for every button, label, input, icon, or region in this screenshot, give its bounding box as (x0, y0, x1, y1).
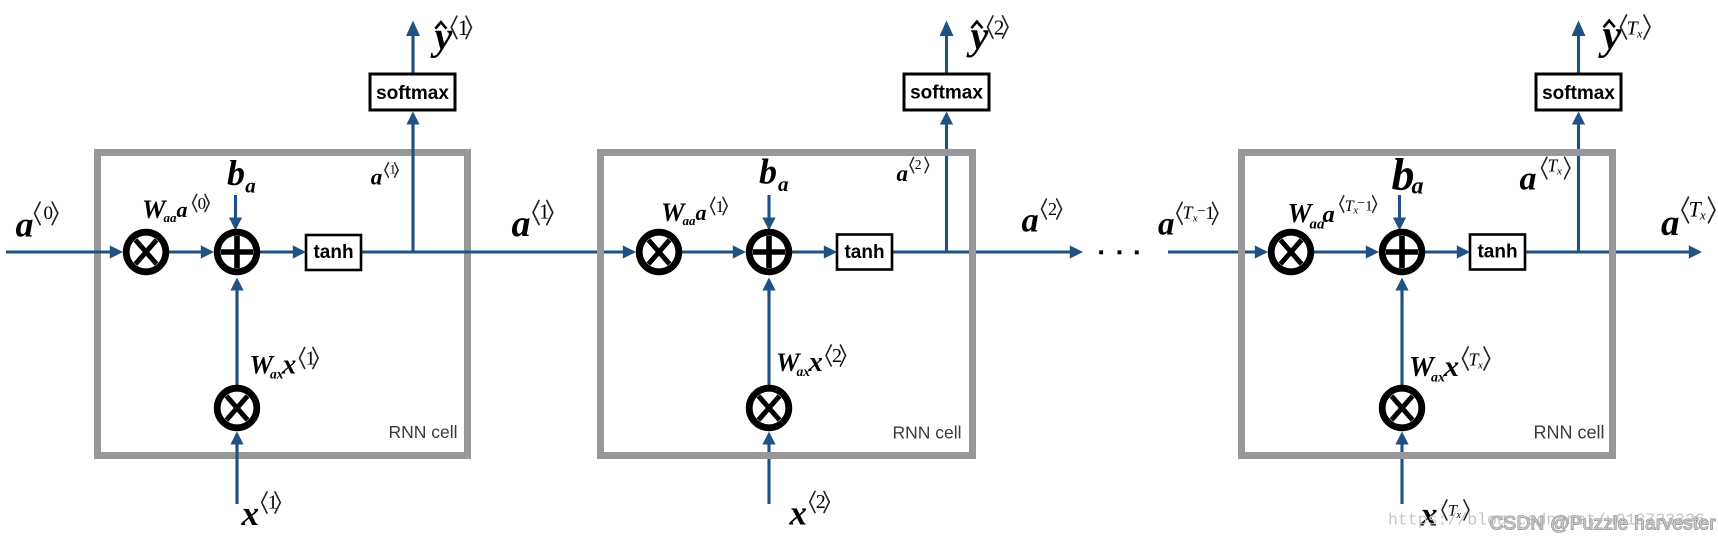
svg-text:1: 1 (716, 197, 725, 216)
svg-text:2: 2 (816, 491, 826, 513)
svg-text:y: y (431, 14, 453, 59)
svg-text:a: a (1158, 207, 1175, 243)
svg-text:RNN cell: RNN cell (893, 423, 962, 443)
svg-text:a: a (1022, 202, 1039, 240)
svg-text:aa: aa (164, 210, 178, 225)
svg-text:a: a (1323, 201, 1335, 228)
svg-text:0: 0 (198, 194, 207, 213)
svg-text:softmax: softmax (910, 83, 983, 104)
svg-text:x: x (1477, 360, 1483, 372)
svg-text:x: x (1443, 350, 1459, 383)
svg-text:1: 1 (1365, 199, 1372, 215)
svg-text:a: a (512, 203, 531, 245)
svg-text:x: x (241, 494, 260, 533)
svg-text:b: b (759, 152, 777, 192)
svg-text:x: x (1556, 165, 1562, 177)
svg-text:x: x (1636, 27, 1643, 41)
svg-text:ax: ax (1431, 371, 1445, 386)
svg-text:CSDN @Puzzle harvester: CSDN @Puzzle harvester (1490, 514, 1717, 535)
svg-text:a: a (1412, 174, 1424, 200)
svg-text:2: 2 (832, 345, 842, 367)
svg-text:a: a (1520, 161, 1537, 198)
svg-text:x: x (789, 494, 808, 533)
svg-text:−: − (1357, 196, 1365, 211)
svg-text:x: x (808, 347, 823, 378)
svg-text:2: 2 (1048, 199, 1057, 219)
svg-text:a: a (245, 173, 256, 197)
svg-text:a: a (16, 205, 34, 245)
svg-text:tanh: tanh (313, 242, 353, 263)
svg-text:a: a (1661, 203, 1680, 244)
svg-text:a: a (177, 197, 188, 222)
svg-text:softmax: softmax (376, 83, 449, 104)
svg-text:x: x (1699, 208, 1706, 223)
svg-text:a: a (696, 200, 707, 225)
svg-text:a: a (897, 161, 909, 186)
svg-text:0: 0 (44, 203, 54, 224)
svg-text:RNN cell: RNN cell (1534, 423, 1605, 443)
svg-text:b: b (227, 153, 245, 193)
svg-text:a: a (371, 165, 383, 190)
svg-text:tanh: tanh (844, 242, 884, 263)
svg-text:RNN cell: RNN cell (389, 422, 458, 442)
svg-text:2: 2 (915, 157, 922, 172)
svg-text:softmax: softmax (1542, 83, 1615, 104)
svg-text:tanh: tanh (1477, 242, 1517, 263)
svg-text:aa: aa (683, 213, 697, 228)
svg-text:x: x (281, 350, 296, 381)
svg-text:a: a (778, 172, 789, 196)
svg-text:y: y (967, 13, 989, 58)
